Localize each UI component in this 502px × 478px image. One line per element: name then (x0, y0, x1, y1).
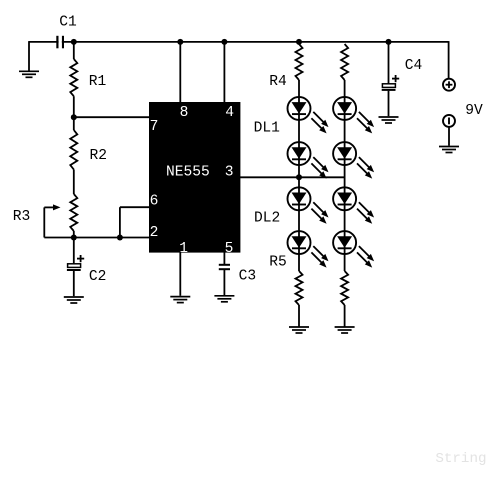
ground (battery) (439, 147, 459, 153)
svg-text:6: 6 (150, 194, 159, 210)
ground (chain 1) (289, 327, 309, 333)
wire: R3 to bottom node (73, 231, 75, 238)
wire: chain 2 vertical (344, 80, 346, 271)
wire: pin 8 to rail (179, 42, 181, 103)
label C2 (89, 269, 107, 285)
wire: rail corner down to battery + (448, 41, 450, 79)
label R4 (269, 74, 287, 90)
label R3 (13, 209, 31, 225)
wire: pin 1 to ground (179, 252, 181, 296)
ground (below C2) (64, 297, 84, 303)
node: R3/C2 junction (71, 235, 77, 241)
svg-text:4: 4 (225, 105, 234, 121)
LED DL1c (333, 97, 374, 133)
ground (below C4) (379, 117, 399, 123)
label R1 (89, 74, 107, 90)
pin number 6 (150, 194, 159, 210)
wire: R3 wiper down (43, 207, 45, 237)
potentiometer R3 body (70, 194, 77, 231)
wire: bottom net to pin 2 (44, 237, 150, 239)
label NE555 (166, 165, 210, 181)
watermark text String (435, 451, 486, 467)
resistor R5 (296, 271, 303, 305)
pin number 7 (150, 119, 159, 135)
svg-text:C2: C2 (89, 269, 107, 285)
wire: pin6 drop to pin2 net (119, 207, 121, 237)
LED DL1b (288, 142, 329, 179)
wire: pin 3 output (239, 176, 344, 178)
wire: rail to R1 (73, 42, 75, 59)
ground (chain 2) (335, 327, 355, 333)
svg-text:R5: R5 (269, 255, 287, 271)
label C3 (239, 269, 257, 285)
pin number 5 (225, 241, 234, 257)
svg-text:C3: C3 (239, 269, 257, 285)
LED DL2d (333, 231, 374, 268)
resistor R2 (70, 130, 77, 170)
pin number 3 (225, 165, 234, 181)
node: pin3/DL chain 1 junction (296, 174, 302, 180)
wire: LED string 1 vertical (298, 108, 300, 271)
resistor R1 (70, 59, 77, 96)
node: pin8/rail junction (177, 39, 183, 45)
LED DL2c (333, 187, 374, 224)
LED DL1d (333, 142, 374, 179)
node: chain1/rail junction (296, 39, 302, 45)
ground (left, C1 return) (19, 71, 39, 77)
svg-text:NE555: NE555 (166, 165, 210, 181)
svg-text:String: String (435, 451, 486, 467)
wire: left drop to ground (28, 41, 30, 70)
node: pin4/rail junction (221, 39, 227, 45)
wire: chain 2 resistor to ground (344, 305, 346, 327)
svg-text:8: 8 (180, 105, 189, 121)
pin number 1 (179, 241, 188, 257)
wire: R5 to ground (298, 305, 300, 327)
svg-text:7: 7 (150, 119, 159, 135)
resistor R5' (chain 2) (341, 271, 348, 305)
resistor R4 (296, 44, 303, 80)
label 9V (465, 103, 483, 119)
ground (pin 1) (170, 297, 190, 303)
node: C1/R1/+9V junction (71, 39, 77, 45)
svg-text:R2: R2 (90, 148, 108, 164)
node: pin6/pin2 junction (117, 235, 123, 241)
pin number 8 (180, 105, 189, 121)
label DL2 (254, 211, 280, 227)
battery + terminal (443, 79, 455, 91)
svg-text:DL1: DL1 (254, 120, 281, 136)
LED DL1a (288, 97, 329, 133)
pin number 4 (225, 105, 234, 121)
label DL1 (254, 120, 281, 136)
node: R1/R2/pin7 junction (71, 114, 77, 120)
battery - terminal (443, 115, 455, 127)
capacitor C2 (electrolytic) (67, 238, 81, 297)
wiper arrow of R3 (44, 204, 60, 210)
wire: battery - to ground (448, 127, 450, 146)
wire: R4 to LED string 1 (298, 80, 300, 108)
polarity + of C4 (392, 75, 399, 82)
svg-text:R1: R1 (89, 74, 107, 90)
label C4 (405, 58, 423, 74)
svg-text:DL2: DL2 (254, 211, 280, 227)
ground (below C3) (214, 296, 234, 302)
svg-text:5: 5 (225, 241, 234, 257)
wire: pin 7 (74, 116, 150, 118)
svg-text:3: 3 (225, 165, 234, 181)
label R5 (269, 255, 287, 271)
svg-text:C1: C1 (59, 14, 77, 30)
LED DL2b (288, 231, 329, 268)
wire: pin 5 to C3 (223, 252, 225, 265)
IC U1 NE555 body (149, 102, 240, 253)
wire: +9V top supply rail (29, 41, 449, 43)
svg-text:R4: R4 (269, 74, 287, 90)
wire: R2 to R3 (73, 170, 75, 195)
wire: R1 to pin7 node (73, 96, 75, 117)
capacitor C1 (57, 34, 63, 50)
capacitor C4 (electrolytic) (382, 84, 396, 116)
wire: rail to C4 (388, 42, 390, 84)
svg-text:C4: C4 (405, 58, 423, 74)
wire: node to R2 (73, 117, 75, 130)
label C1 (59, 14, 77, 30)
wire: pin 4 to rail (223, 42, 225, 103)
node: C4/rail junction (386, 39, 392, 45)
svg-text:2: 2 (150, 225, 159, 241)
label R2 (90, 148, 108, 164)
pin number 2 (150, 225, 159, 241)
resistor R4' (chain 2) (341, 44, 348, 80)
polarity + of C2 (77, 255, 84, 262)
svg-text:9V: 9V (465, 103, 483, 119)
LED DL2a (288, 187, 329, 224)
svg-text:R3: R3 (13, 209, 31, 225)
wire: pin 6 (120, 206, 150, 208)
capacitor C3 (219, 265, 230, 295)
